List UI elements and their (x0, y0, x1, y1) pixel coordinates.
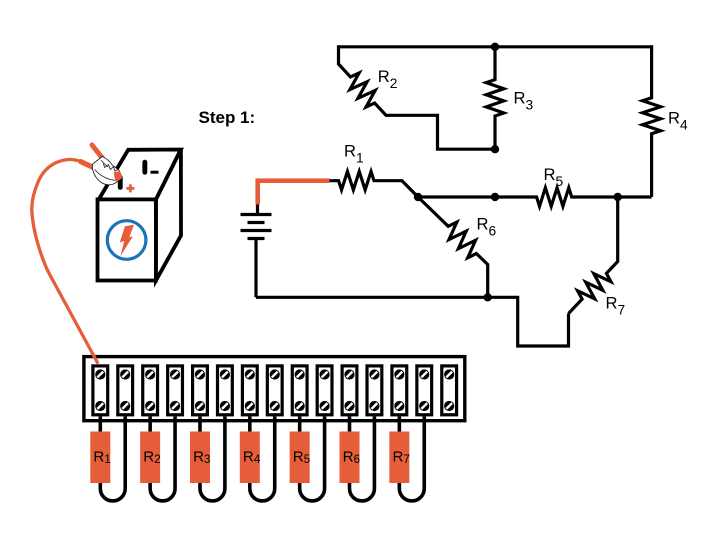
svg-text:Step 1:: Step 1: (199, 108, 256, 127)
